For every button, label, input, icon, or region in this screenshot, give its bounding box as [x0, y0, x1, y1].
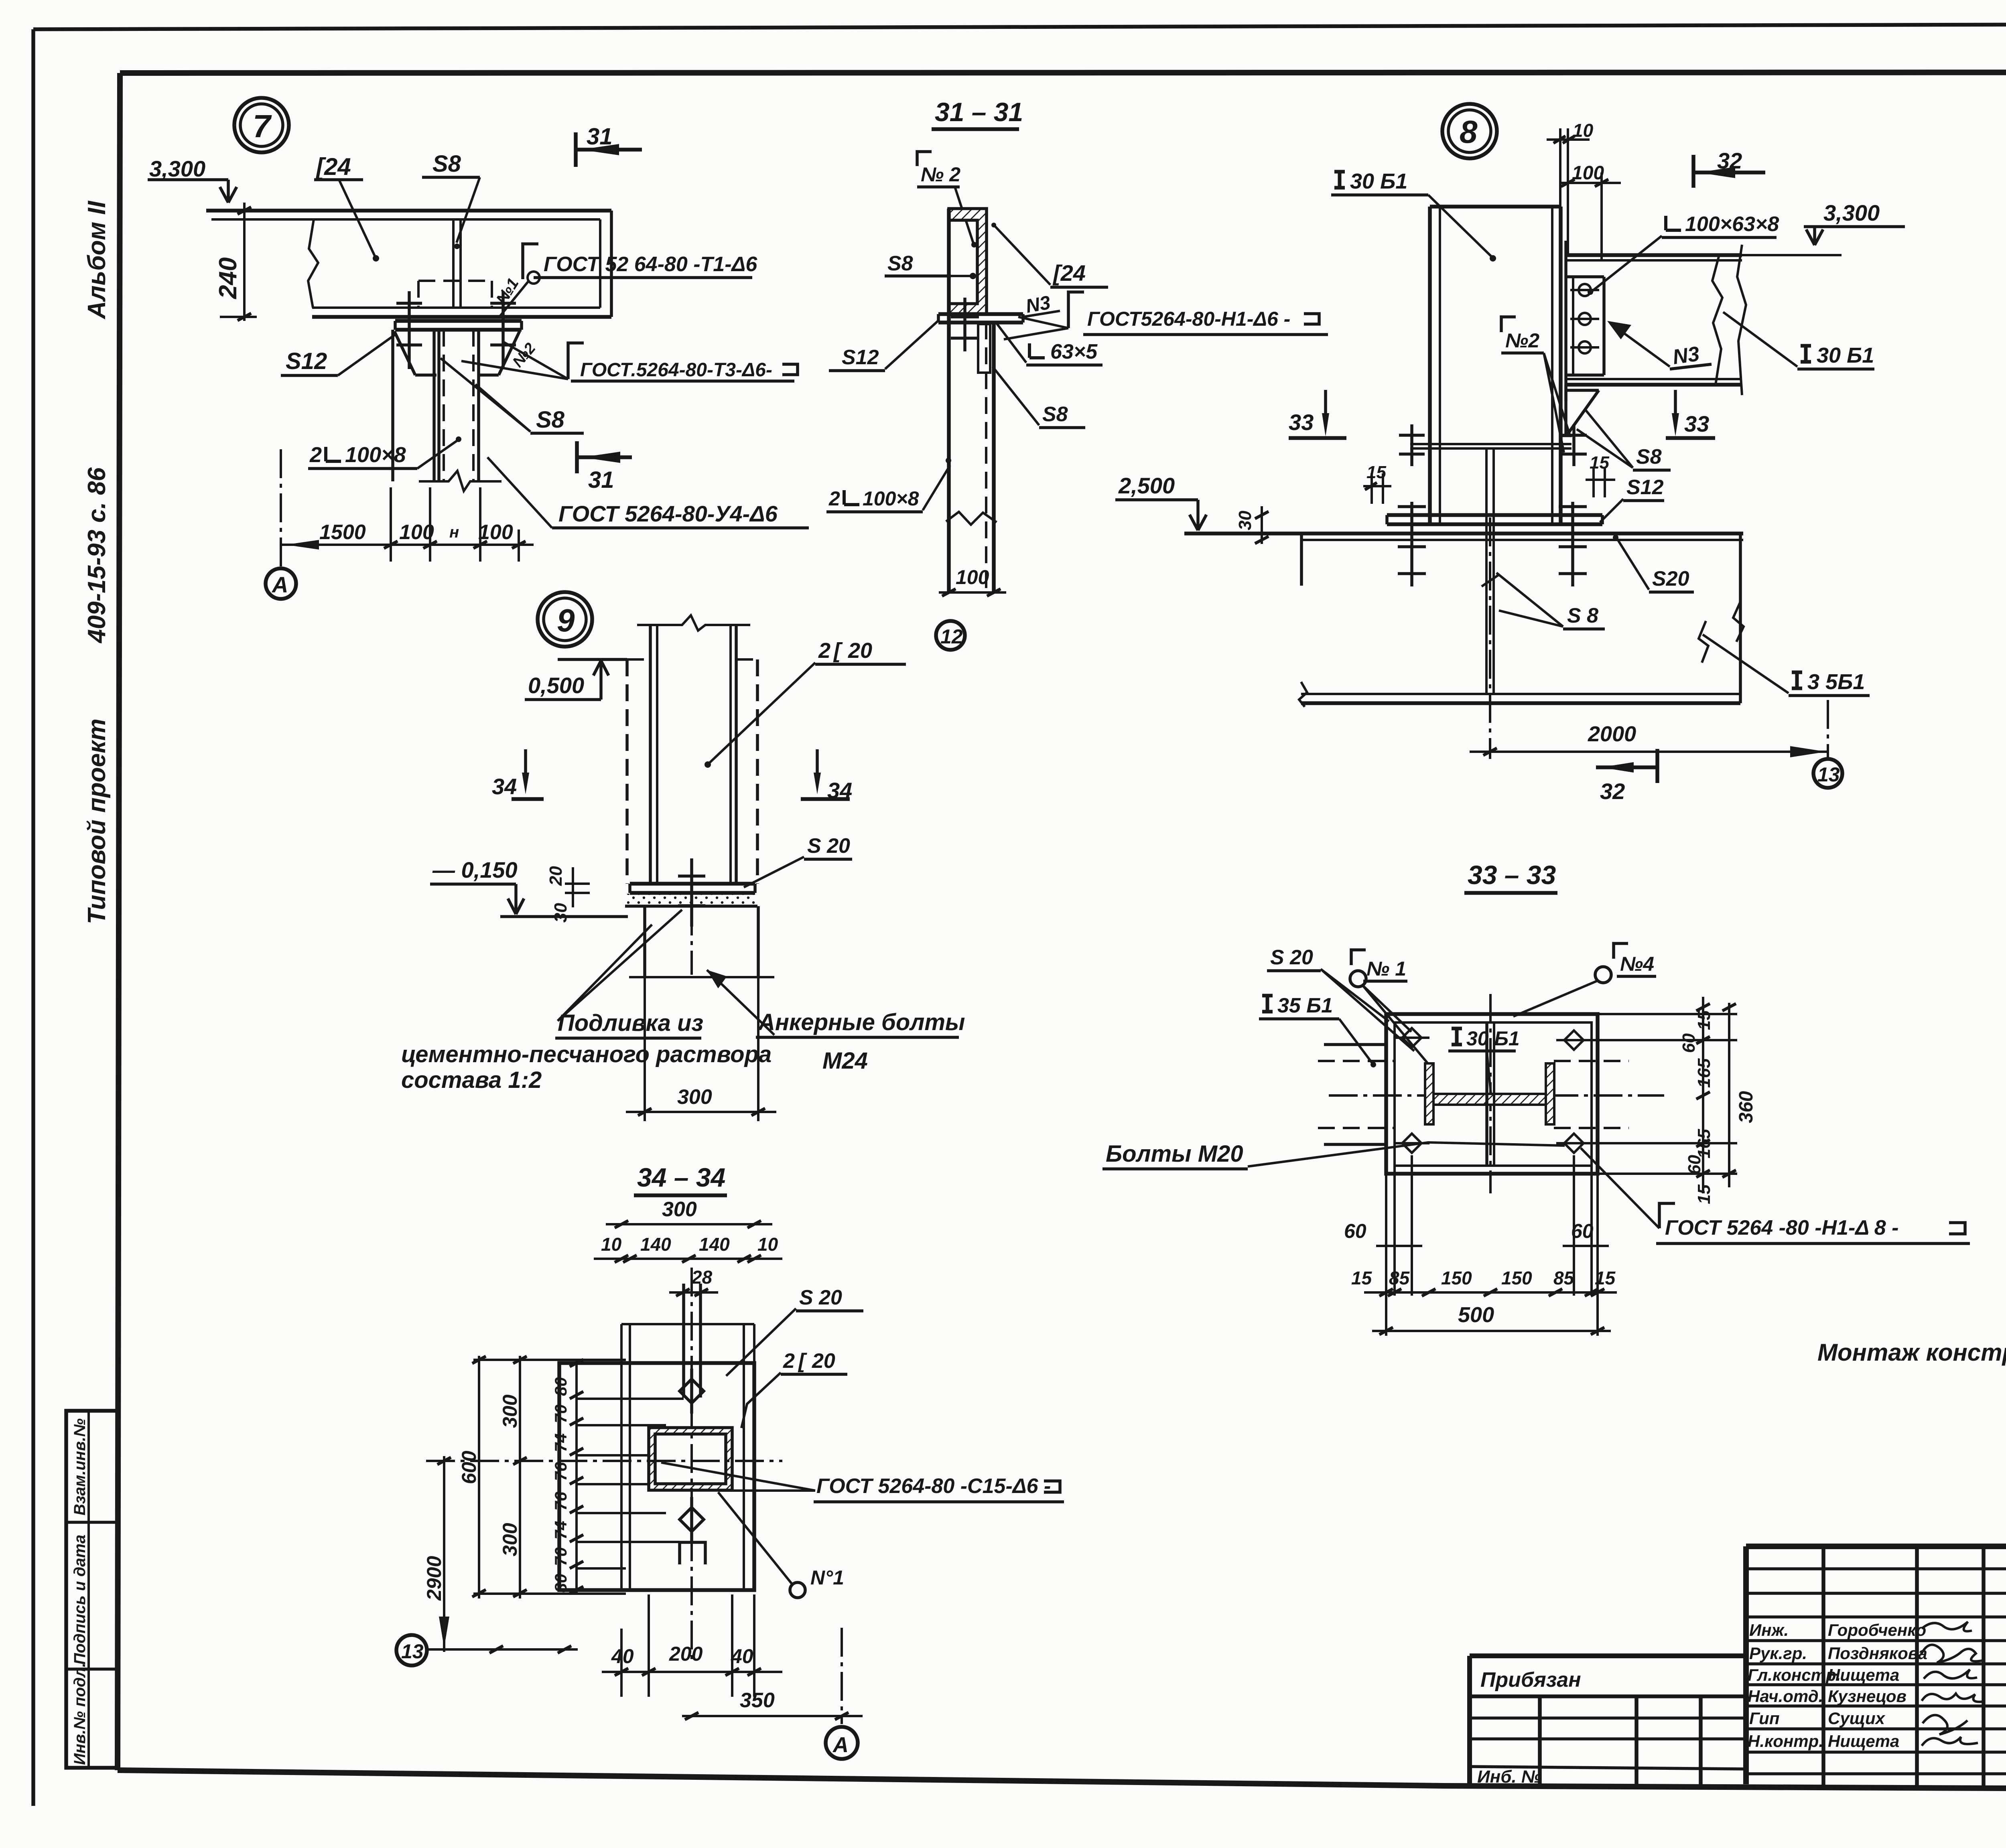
- bracket top plate: [395, 319, 522, 323]
- svg-text:7: 7: [253, 108, 272, 144]
- svg-text:15: 15: [1694, 1185, 1714, 1204]
- ext lines horizontals: [473, 1359, 626, 1361]
- dim 300/300 ladder: [519, 1356, 521, 1598]
- svg-text:3,300: 3,300: [1823, 200, 1880, 225]
- svg-text:100: 100: [399, 521, 434, 544]
- dashed channel outline: [625, 659, 629, 884]
- svg-text:9: 9: [557, 602, 575, 638]
- svg-text:34 – 34: 34 – 34: [637, 1162, 725, 1192]
- svg-text:31 – 31: 31 – 31: [935, 97, 1023, 127]
- I-beam section left flange: [1425, 1063, 1433, 1124]
- svg-text:2000: 2000: [1588, 722, 1636, 746]
- channel C24 section hatched: [949, 209, 987, 314]
- label No4: [1614, 943, 1628, 959]
- svg-text:74: 74: [551, 1521, 570, 1540]
- grid bubble A: [841, 1628, 843, 1724]
- svg-text:30 Б1: 30 Б1: [1350, 169, 1407, 193]
- svg-text:500: 500: [1458, 1303, 1494, 1327]
- svg-text:Подпись и дата: Подпись и дата: [71, 1535, 89, 1665]
- stiffener S8 in beam: [452, 219, 455, 308]
- weld label GOST T3: [568, 343, 584, 379]
- beam edges left: [1324, 1043, 1386, 1046]
- svg-text:2: 2: [783, 1349, 795, 1373]
- svg-text:цементно-песчаного раствора: цементно-песчаного раствора: [401, 1041, 772, 1067]
- section marks 33: [1324, 390, 1327, 418]
- svg-text:[24: [24: [315, 153, 351, 180]
- svg-text:S 20: S 20: [799, 1286, 842, 1309]
- svg-text:3 5Б1: 3 5Б1: [1807, 670, 1865, 694]
- svg-text:ГОСТ 52 64-80 -Т1-Δ6: ГОСТ 52 64-80 -Т1-Δ6: [544, 253, 757, 276]
- svg-text:150: 150: [1441, 1268, 1472, 1288]
- svg-text:ГОСТ.5264-80-Т3-Δ6-: ГОСТ.5264-80-Т3-Δ6-: [580, 359, 772, 381]
- svg-text:S8: S8: [1042, 403, 1068, 426]
- hidden lines in plate: [1554, 1060, 1629, 1062]
- svg-text:2: 2: [818, 639, 830, 663]
- dim 2900: [443, 1456, 445, 1652]
- svg-text:60: 60: [1679, 1033, 1699, 1053]
- outer border left: [31, 29, 35, 1806]
- svg-text:33: 33: [1289, 410, 1314, 435]
- lower bolt diamond: [680, 1507, 704, 1532]
- lower beam bottom flange: [1301, 693, 1740, 695]
- vertical stiffener line: [1485, 1022, 1488, 1166]
- left dim ladder small: [575, 1360, 578, 1594]
- outer border top: [33, 23, 2006, 29]
- section mark 31 bottom: [575, 441, 579, 473]
- svg-text:30 Б1: 30 Б1: [1817, 343, 1874, 367]
- svg-text:30 Б1: 30 Б1: [1466, 1027, 1520, 1050]
- bolts at base plate: [1410, 502, 1413, 586]
- svg-text:74: 74: [551, 1433, 570, 1452]
- seat plate in column: [1410, 443, 1572, 445]
- beam break mid: [1712, 255, 1722, 385]
- svg-text:S8: S8: [887, 252, 913, 275]
- svg-text:32: 32: [1600, 779, 1625, 804]
- weld label GOST N1-8: [1659, 1203, 1675, 1228]
- svg-text:2900: 2900: [423, 1556, 445, 1601]
- svg-text:300: 300: [677, 1085, 712, 1109]
- label No2: [1501, 317, 1516, 332]
- axis A centerline: [280, 449, 282, 568]
- svg-text:76: 76: [551, 1462, 570, 1481]
- grid bubble 13: [1827, 700, 1829, 757]
- label No2: [917, 152, 932, 166]
- svg-text:31: 31: [587, 124, 613, 150]
- svg-text:А: А: [832, 1733, 849, 1757]
- svg-text:20: 20: [812, 1349, 835, 1373]
- grid bubble A: [266, 568, 296, 599]
- svg-text:140: 140: [640, 1234, 671, 1255]
- dim line 1500/100/n/100: [281, 544, 534, 546]
- svg-text:ГОСТ 5264-80-У4-Δ6: ГОСТ 5264-80-У4-Δ6: [558, 501, 778, 526]
- svg-text:165: 165: [1694, 1058, 1714, 1088]
- svg-text:Сущих: Сущих: [1828, 1709, 1886, 1728]
- top break line: [637, 615, 750, 631]
- svg-text:состава 1:2: состава 1:2: [401, 1067, 542, 1093]
- svg-text:№2: №2: [1505, 329, 1539, 352]
- svg-text:33 – 33: 33 – 33: [1468, 860, 1556, 890]
- bolt marks on flange: [408, 291, 411, 369]
- beam C24 top flange: [206, 209, 611, 213]
- svg-text:140: 140: [699, 1234, 730, 1255]
- svg-text:S12: S12: [1626, 476, 1664, 499]
- svg-text:100×8: 100×8: [863, 487, 919, 510]
- grid bubble 13: [396, 1635, 427, 1665]
- detail 7 bubble: [234, 98, 289, 152]
- bolts at seat plate: [1410, 424, 1413, 466]
- svg-text:Рук.гр.: Рук.гр.: [1749, 1644, 1807, 1663]
- svg-text:Позднякова: Позднякова: [1828, 1644, 1927, 1663]
- svg-text:60: 60: [1685, 1155, 1704, 1175]
- svg-text:Болты М20: Болты М20: [1106, 1141, 1243, 1167]
- svg-text:100×63×8: 100×63×8: [1685, 213, 1779, 236]
- S8 bracket under beam: [1564, 385, 1567, 436]
- inner frame left: [118, 73, 120, 1770]
- svg-text:Взам.инв.№: Взам.инв.№: [71, 1418, 89, 1515]
- staff names: [1748, 1621, 1927, 1751]
- section mark 32 top: [1691, 155, 1695, 188]
- svg-text:S 20: S 20: [1270, 946, 1313, 969]
- lower slot notch: [680, 1542, 705, 1564]
- svg-text:300: 300: [499, 1394, 521, 1428]
- svg-text:100×8: 100×8: [345, 443, 406, 467]
- svg-text:Инв.№ подл.: Инв.№ подл.: [71, 1663, 89, 1765]
- svg-text:33: 33: [1684, 411, 1709, 436]
- section mark 32 bottom: [1655, 749, 1659, 783]
- column flanges: [1428, 207, 1432, 524]
- weld label GOST T1: [523, 244, 538, 279]
- svg-text:— 0,150: — 0,150: [432, 857, 518, 882]
- dim 100: [939, 591, 1006, 594]
- svg-text:М24: М24: [822, 1048, 868, 1074]
- svg-text:8: 8: [1460, 114, 1478, 150]
- svg-text:100: 100: [478, 521, 513, 544]
- svg-text:32: 32: [1717, 148, 1742, 173]
- beam C24 bottom flange: [312, 306, 600, 309]
- upper beam 30B1: [1566, 253, 1742, 257]
- inner frame bottom: [118, 1770, 2006, 1791]
- svg-text:360: 360: [1736, 1091, 1757, 1123]
- svg-text:85: 85: [1553, 1268, 1575, 1288]
- label I35B1 left: [1262, 996, 1273, 1012]
- svg-text:2,500: 2,500: [1118, 473, 1175, 498]
- svg-text:100: 100: [956, 566, 989, 588]
- svg-text:10: 10: [757, 1234, 778, 1255]
- svg-text:30: 30: [551, 903, 571, 923]
- svg-text:S12: S12: [286, 348, 327, 374]
- plate outer: [1386, 1014, 1598, 1174]
- plate inner: [1395, 1022, 1592, 1166]
- svg-text:80: 80: [551, 1574, 570, 1592]
- svg-text:20: 20: [546, 866, 566, 886]
- svg-text:Инж.: Инж.: [1749, 1621, 1789, 1639]
- label L100x63x8: [1666, 216, 1681, 230]
- svg-text:15: 15: [1595, 1268, 1616, 1288]
- svg-text:80: 80: [551, 1377, 570, 1396]
- svg-text:12: 12: [940, 625, 963, 648]
- svg-text:Горобченко: Горобченко: [1828, 1621, 1926, 1639]
- upper bolt slot: [682, 1284, 685, 1398]
- svg-text:1500: 1500: [319, 521, 366, 544]
- hidden bracket dashed: [418, 280, 492, 282]
- svg-text:ГОСТ5264-80-Н1-Δ6 -: ГОСТ5264-80-Н1-Δ6 -: [1087, 308, 1290, 330]
- svg-text:240: 240: [214, 258, 242, 299]
- svg-text:S8: S8: [432, 151, 461, 177]
- svg-text:70: 70: [551, 1404, 570, 1423]
- svg-text:Анкерные болты: Анкерные болты: [757, 1009, 965, 1035]
- bolt mark: [963, 298, 966, 351]
- right flange: [1546, 1063, 1554, 1124]
- title block outer: [1746, 1544, 2006, 1549]
- bolts (diamonds): [1394, 1028, 1592, 1153]
- svg-text:S 20: S 20: [807, 834, 850, 858]
- beam break line: [308, 219, 318, 308]
- svg-text:ГОСТ 5264 -80 -Н1-Δ 8 -: ГОСТ 5264 -80 -Н1-Δ 8 -: [1665, 1216, 1898, 1239]
- right dim chain: [1598, 1013, 1737, 1015]
- svg-text:20: 20: [848, 639, 872, 663]
- svg-text:Инб. №: Инб. №: [1477, 1767, 1541, 1787]
- svg-text:Подливка из: Подливка из: [558, 1010, 703, 1036]
- upper bolt diamond: [680, 1379, 704, 1403]
- svg-text:Нищета: Нищета: [1828, 1732, 1899, 1751]
- svg-text:10: 10: [601, 1234, 622, 1255]
- plate S8 on column: [978, 324, 990, 373]
- svg-text:34: 34: [492, 774, 517, 799]
- svg-text:ГОСТ 5264-80 -С15-Δ6 -: ГОСТ 5264-80 -С15-Δ6 -: [816, 1475, 1051, 1498]
- column shafts: [649, 625, 652, 884]
- seat plate: [938, 312, 1023, 316]
- stiffener below column: [1485, 448, 1488, 694]
- signatures: [1921, 1622, 1983, 1746]
- svg-text:600: 600: [458, 1450, 480, 1484]
- svg-text:S8: S8: [536, 407, 565, 433]
- pribyazan box: [1470, 1653, 1746, 1658]
- svg-text:300: 300: [499, 1523, 521, 1556]
- svg-text:Нищета: Нищета: [1828, 1665, 1899, 1684]
- beam C24 right end: [610, 211, 613, 317]
- svg-text:№ 1: № 1: [1366, 957, 1406, 980]
- svg-text:63×5: 63×5: [1050, 340, 1098, 363]
- svg-text:76: 76: [551, 1492, 570, 1511]
- svg-text:31: 31: [588, 467, 614, 493]
- inner frame top: [120, 72, 2006, 73]
- base plate: [630, 882, 755, 886]
- svg-text:150: 150: [1501, 1268, 1532, 1288]
- column break: [419, 471, 501, 491]
- weld flag GOST N1: [1068, 292, 1084, 328]
- centerlines: [690, 1268, 693, 1665]
- base plate: [1387, 513, 1602, 517]
- svg-text:Прибязан: Прибязан: [1480, 1668, 1581, 1692]
- svg-text:А: А: [271, 572, 288, 597]
- column break mark: [946, 512, 997, 525]
- detail 8 bubble: [1442, 104, 1497, 158]
- svg-text:S12: S12: [842, 346, 879, 369]
- label I30B1 top: [1334, 172, 1345, 188]
- svg-text:15: 15: [1351, 1268, 1373, 1288]
- section mark 31 top: [574, 132, 578, 167]
- svg-text:Гип: Гип: [1749, 1709, 1780, 1728]
- svg-text:409-15-93 с. 86: 409-15-93 с. 86: [83, 467, 111, 644]
- label L63x5: [1029, 343, 1045, 358]
- bolts 3x: [1579, 284, 1591, 296]
- box 2C20 hatched: [649, 1428, 732, 1490]
- svg-text:S 8: S 8: [1567, 604, 1598, 627]
- column angles below: [947, 209, 951, 592]
- svg-text:85: 85: [1389, 1268, 1410, 1288]
- svg-text:Монтаж конструкций вести: Монтаж конструкций вести на болтах М12: [1817, 1339, 2006, 1366]
- svg-text:13: 13: [401, 1640, 424, 1663]
- svg-text:Гл.констр.: Гл.констр.: [1748, 1665, 1841, 1684]
- svg-text:165: 165: [1694, 1129, 1714, 1158]
- bracket gussets: [394, 331, 415, 375]
- grout layer dotted: [627, 894, 756, 906]
- svg-text:30: 30: [1235, 511, 1255, 530]
- label I35B1: [1792, 672, 1802, 688]
- web: [1433, 1094, 1546, 1105]
- svg-text:Альбом II: Альбом II: [83, 200, 111, 320]
- svg-text:S20: S20: [1652, 567, 1689, 590]
- svg-text:н: н: [449, 523, 459, 541]
- channel flange lines: [620, 1324, 623, 1590]
- foundation: [643, 906, 646, 977]
- dim 600: [478, 1356, 480, 1598]
- staff table columns: [1821, 1546, 1825, 1789]
- column 2L100x8: [391, 330, 394, 481]
- svg-text:100: 100: [1572, 162, 1604, 184]
- plate S20: [559, 1363, 754, 1590]
- svg-text:0,500: 0,500: [528, 673, 584, 698]
- svg-text:Типовой проект: Типовой проект: [83, 718, 111, 924]
- svg-text:40: 40: [731, 1645, 753, 1667]
- left margin stamp box: [66, 1411, 118, 1768]
- svg-text:70: 70: [551, 1547, 570, 1566]
- centerlines: [1489, 994, 1492, 1193]
- svg-text:2: 2: [828, 487, 840, 510]
- svg-text:13: 13: [1817, 763, 1840, 786]
- anchor bolt: [690, 862, 693, 975]
- svg-text:60: 60: [1344, 1220, 1366, 1242]
- svg-text:[: [: [833, 639, 843, 663]
- svg-text:15: 15: [1694, 1010, 1714, 1030]
- svg-text:[: [: [798, 1349, 807, 1373]
- staff table rows: [1746, 1567, 2006, 1570]
- detail 9 bubble: [538, 592, 592, 647]
- svg-text:Нач.отд.: Нач.отд.: [1748, 1687, 1823, 1706]
- svg-text:350: 350: [740, 1689, 775, 1712]
- label No1: [1351, 950, 1366, 965]
- label I30B1 right: [1801, 346, 1811, 362]
- svg-text:N°1: N°1: [810, 1566, 844, 1589]
- column centerline: [1489, 517, 1491, 759]
- label I30B1: [1452, 1028, 1462, 1045]
- svg-text:№ 2: № 2: [921, 163, 960, 186]
- svg-text:Кузнецов: Кузнецов: [1828, 1687, 1907, 1706]
- svg-text:35 Б1: 35 Б1: [1277, 994, 1333, 1017]
- svg-text:200: 200: [669, 1643, 703, 1665]
- svg-text:3,300: 3,300: [149, 156, 205, 181]
- grid bubble 12: [936, 621, 965, 650]
- lower beam top flange: [1184, 531, 1743, 536]
- svg-text:S8: S8: [1636, 445, 1662, 469]
- svg-text:№4: №4: [1620, 953, 1654, 975]
- svg-text:10: 10: [1573, 120, 1594, 141]
- svg-text:300: 300: [662, 1198, 697, 1221]
- dim 240: [243, 203, 246, 321]
- svg-text:[24: [24: [1052, 260, 1086, 286]
- svg-text:Н.контр.: Н.контр.: [1748, 1732, 1823, 1751]
- svg-text:2: 2: [309, 443, 322, 467]
- bolted angle plate: [1602, 277, 1606, 375]
